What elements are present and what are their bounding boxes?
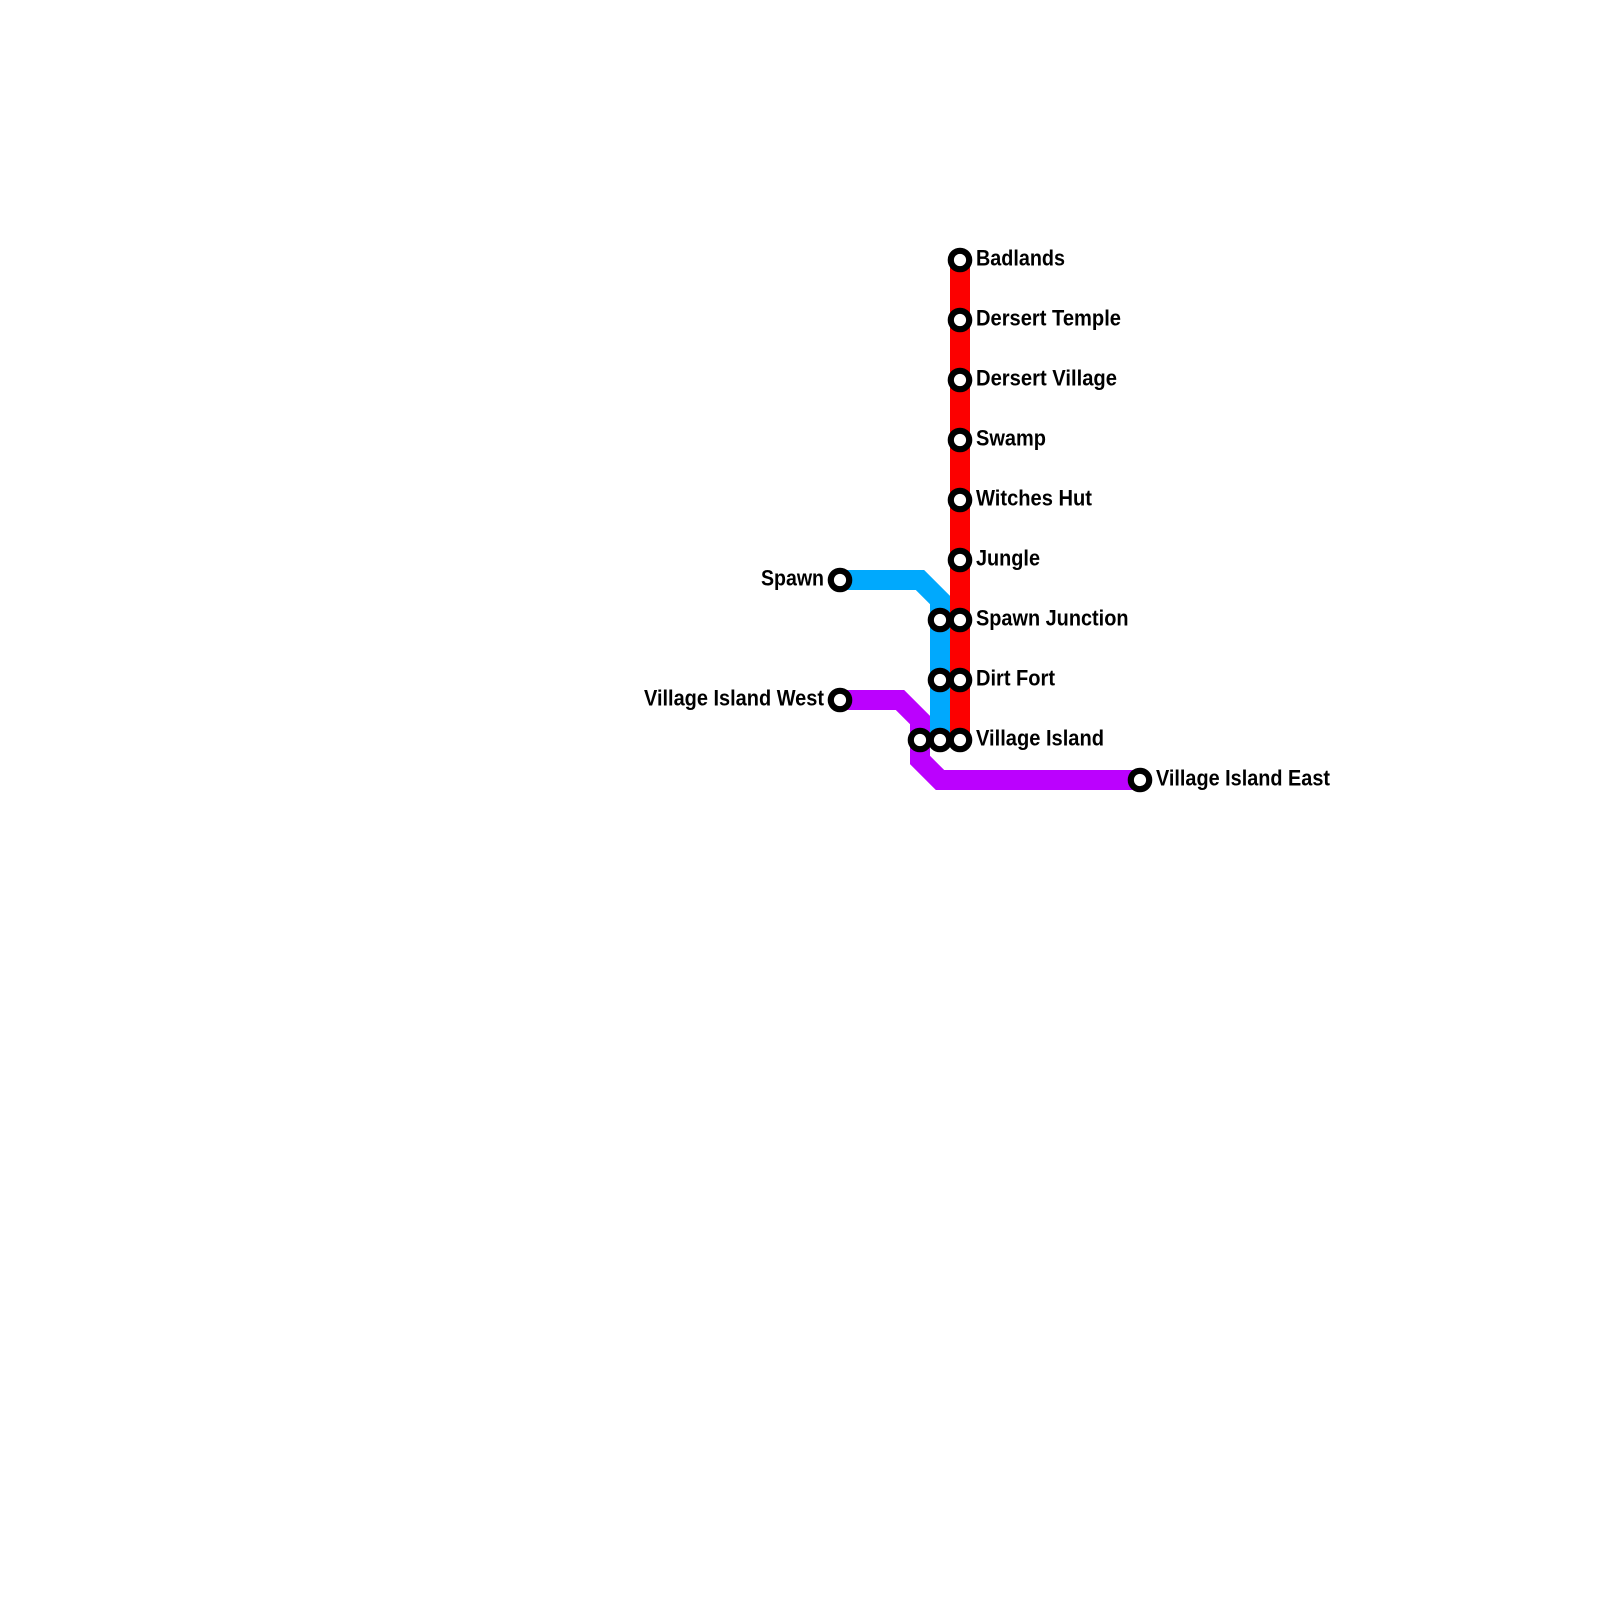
svg-text:Village Island West: Village Island West <box>644 686 825 711</box>
station Village Island (red circle) <box>951 731 969 749</box>
svg-text:Spawn Junction: Spawn Junction <box>976 606 1129 631</box>
station Dersert Village <box>951 371 969 389</box>
station Village Island (blue circle) <box>931 731 949 749</box>
svg-text:Dersert Temple: Dersert Temple <box>976 306 1121 331</box>
svg-text:Village Island: Village Island <box>976 726 1104 751</box>
station Dirt Fort (blue circle) <box>931 671 949 689</box>
svg-text:Swamp: Swamp <box>976 426 1046 451</box>
station Badlands <box>951 251 969 269</box>
station Village Island West (purple terminus) <box>831 691 849 709</box>
station Jungle <box>951 551 969 569</box>
station Witches Hut <box>951 491 969 509</box>
svg-text:Dersert Village: Dersert Village <box>976 366 1117 391</box>
blue line (Spawn - Village Island) <box>840 580 940 740</box>
station Dersert Temple <box>951 311 969 329</box>
svg-text:Dirt Fort: Dirt Fort <box>976 666 1056 691</box>
station Village Island East (purple terminus) <box>1131 771 1149 789</box>
svg-text:Badlands: Badlands <box>976 246 1065 271</box>
svg-text:Jungle: Jungle <box>976 546 1040 571</box>
station Village Island (purple circle) <box>911 731 929 749</box>
purple line (Village Island West - Village Island East) <box>840 700 1140 780</box>
station Spawn (blue terminus) <box>831 571 849 589</box>
red line (Badlands - Village Island) <box>950 260 970 740</box>
station Swamp <box>951 431 969 449</box>
svg-text:Village Island East: Village Island East <box>1156 766 1331 791</box>
station Spawn Junction (red circle) <box>951 611 969 629</box>
svg-text:Spawn: Spawn <box>761 566 824 591</box>
station Spawn Junction (blue circle) <box>931 611 949 629</box>
station Dirt Fort (red circle) <box>951 671 969 689</box>
svg-text:Witches Hut: Witches Hut <box>976 486 1093 511</box>
